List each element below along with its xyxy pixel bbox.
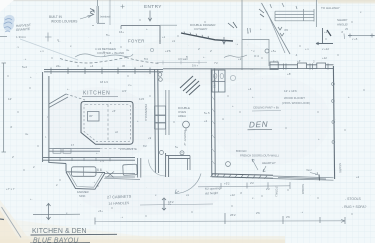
chevrons left of window: [90, 9, 94, 17]
dimension line under den wall: [198, 186, 290, 187]
top edge scan shadow: [0, 0, 375, 1]
svg-text:+ .: + .: [30, 197, 33, 201]
den right wall: [333, 66, 334, 179]
svg-text:12': 12': [8, 97, 12, 101]
svg-text:SHARP: SHARP: [337, 18, 347, 22]
den left wall (double vertical): [211, 68, 215, 176]
svg-text:. +: . +: [120, 215, 124, 219]
lower cabinets top line + boxes: [49, 149, 100, 152]
arch dashed over kitchen: [60, 58, 126, 64]
stairwell verticals: [241, 0, 243, 70]
svg-text:2'2: 2'2: [250, 181, 254, 185]
svg-text:(window): (window): [100, 14, 111, 18]
svg-text:. +: . +: [300, 210, 304, 214]
svg-text:18 1/4: 18 1/4: [100, 80, 108, 84]
dimension line mid-bottom (kitchen side): [140, 204, 213, 205]
staircase (top-right): [270, 0, 317, 27]
svg-text:26'2: 26'2: [230, 213, 236, 217]
svg-text:J +: J +: [128, 83, 132, 87]
top wall dimension line to page edge: [348, 35, 375, 37]
svg-text:ANGLE!: ANGLE!: [337, 23, 348, 27]
svg-text:SLIDER: SLIDER: [301, 184, 305, 194]
L-counter near walkway: [166, 153, 169, 177]
island cooktop box: [88, 112, 100, 122]
arrow cluster below stairs: [278, 27, 284, 36]
svg-text:+ .: + .: [58, 39, 61, 43]
svg-text:+ .: + .: [67, 87, 70, 91]
svg-text:4+: 4+: [25, 132, 29, 136]
svg-text:.4: .4: [109, 41, 112, 45]
svg-text:+5'2: +5'2: [224, 182, 230, 186]
blue blob (granite sample scribble): [3, 15, 15, 32]
dark banister rail (sloped): [181, 33, 233, 41]
svg-text:(TOTAL): (TOTAL): [275, 186, 279, 197]
corner diagonal pencil line: [2, 207, 22, 238]
svg-text:- STOOLS: - STOOLS: [345, 197, 362, 201]
left margin dimension line: [3, 63, 5, 152]
kitchen island: [81, 102, 133, 145]
svg-text:l .: l .: [45, 135, 47, 139]
left counter vertical: [43, 72, 49, 162]
den bottom wall: thick hatched left part: [212, 174, 274, 178]
svg-text:+ v: + v: [305, 47, 309, 51]
extra scattered dimension marks: [248, 28, 251, 33]
title block: [33, 213, 80, 215]
svg-text:2'2: 2'2: [266, 187, 270, 191]
wall labels above kitchen right wall: [157, 61, 207, 63]
svg-text:. +: . +: [23, 57, 27, 61]
svg-text:Yes!: Yes!: [306, 168, 312, 172]
svg-text:16+: 16+: [119, 30, 124, 34]
svg-text:ENTRY: ENTRY: [144, 4, 162, 9]
svg-text:+12: +12: [322, 56, 327, 60]
wavy annotation between counter and island: [75, 54, 133, 57]
svg-text:24+: 24+: [56, 64, 61, 68]
svg-text:+: +: [30, 75, 32, 79]
long bottom dimension line: [95, 220, 345, 223]
dishwasher box tilted: [123, 164, 138, 175]
svg-text:KITCHEN & DEN: KITCHEN & DEN: [32, 228, 87, 235]
bottom-left corner cut (cream): [0, 200, 32, 243]
svg-text:5+.5: 5+.5: [204, 111, 210, 115]
svg-text:+2: +2: [324, 30, 328, 34]
bay window: [66, 171, 105, 174]
top-left corner wedge: [0, 0, 14, 12]
svg-text:STAIRS: STAIRS: [338, 163, 342, 173]
left edge tick and cross: [0, 36, 7, 38]
svg-text:5+: 5+: [175, 145, 179, 149]
entry window: double vertical + hatch: [97, 0, 110, 25]
right-of-stairs bracket: [316, 28, 333, 44]
svg-text:x .: x .: [252, 196, 255, 200]
svg-text:1 3/4 in: 1 3/4 in: [16, 35, 26, 39]
pencil specks: [139, 19, 140, 20]
svg-text:TO HALLWAY: TO HALLWAY: [321, 6, 340, 10]
svg-text:36: 36: [122, 64, 126, 68]
stair diagonals: [262, 3, 291, 54]
S-squiggle annotation: [224, 55, 247, 58]
svg-text:COUNTER + ISLAND: COUNTER + ISLAND: [97, 51, 124, 55]
svg-text:+4: +4: [90, 64, 94, 68]
den bottom wall: slider part: [273, 176, 334, 180]
den top wall (double with windows): [163, 62, 334, 70]
svg-text:CUTLERY: CUTLERY: [194, 27, 208, 31]
svg-text:WOOD LOUVERS: WOOD LOUVERS: [51, 20, 77, 24]
sink wall corner: [49, 160, 66, 164]
svg-text:- RUG + SOFA?: - RUG + SOFA?: [342, 205, 367, 209]
lower counter double line: [43, 158, 135, 161]
svg-text:6 6: 6 6: [97, 168, 102, 172]
svg-text:5'+: 5'+: [106, 33, 110, 37]
svg-text:PANTRY +2: PANTRY +2: [183, 130, 187, 146]
svg-text:+5+: +5+: [271, 49, 276, 53]
svg-text:x5: x5: [345, 27, 348, 31]
entry arrow: [148, 11, 152, 22]
cabinet double vertical: [166, 90, 169, 135]
plus mark near entry: [121, 5, 125, 9]
faint pencil smudges: [45, 87, 155, 163]
svg-text:BLUE BAYOU: BLUE BAYOU: [33, 238, 79, 243]
kitchen top counter double line with ticks: [44, 70, 163, 72]
svg-text:2'6: 2'6: [256, 211, 260, 215]
svg-text:v +5: v +5: [352, 37, 358, 41]
foyer top wall: [121, 25, 160, 27]
fridge boxes right of den wall: [212, 70, 225, 92]
svg-text:2'6: 2'6: [286, 215, 290, 219]
svg-text:+2: +2: [356, 175, 360, 179]
diagonal hatch (stair under?) in kitchen-right: [180, 76, 200, 95]
svg-text:AREA: AREA: [178, 114, 186, 118]
svg-text:5+1: 5+1: [273, 60, 278, 64]
pantry stacked boxes: [155, 106, 166, 115]
bottom warm band: [0, 236, 285, 243]
farmer sink: [72, 167, 97, 177]
svg-text:+4': +4': [297, 59, 301, 63]
svg-text:4'6: 4'6: [284, 28, 288, 32]
svg-text:BUILT IN: BUILT IN: [49, 15, 63, 19]
svg-text:FOYER: FOYER: [128, 39, 145, 44]
svg-text:+12: +12: [230, 193, 235, 197]
svg-text:+ x: + x: [40, 49, 44, 53]
svg-text:+2: +2: [204, 119, 208, 123]
svg-text:+7' x 7: +7' x 7: [6, 187, 15, 191]
svg-text:+: +: [146, 27, 148, 31]
corner cabinet diagonal: [49, 94, 68, 108]
kitchen right wall (double vertical): [155, 69, 159, 173]
door swing arcs: [149, 160, 166, 177]
svg-text:4+: 4+: [126, 48, 130, 52]
faint crease top-left: [20, 39, 78, 60]
svg-text:+8': +8': [287, 72, 291, 76]
circle + marks under stairs: [265, 49, 269, 53]
svg-text:v +12: v +12: [322, 47, 329, 51]
svg-text:5+4: 5+4: [22, 65, 27, 69]
